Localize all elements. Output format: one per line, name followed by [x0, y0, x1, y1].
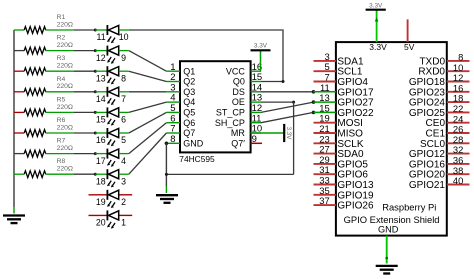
wire: R1 right lead	[46, 29, 75, 31]
wire: bus to R2	[14, 50, 24, 52]
U1 pin 7 stub	[166, 132, 180, 134]
wire: ground bus vertical	[13, 30, 15, 207]
wire: LED4 anode lead	[119, 91, 129, 93]
wire: LED3 cathode lead	[95, 70, 107, 72]
LED D5 (bar pins 15/6)	[107, 107, 119, 125]
resistor R6 220Ohm	[24, 130, 46, 137]
junction DS/GPIO17	[312, 90, 316, 94]
wire: R3 to LED3	[74, 70, 95, 72]
U1 pin 5 stub	[166, 111, 180, 113]
U1 pin 8 stub	[166, 142, 180, 144]
LED D3 (bar pins 13/8)	[107, 66, 119, 84]
svg-text:5V: 5V	[404, 42, 415, 52]
svg-text:Q2: Q2	[183, 77, 195, 87]
svg-text:DS: DS	[232, 87, 245, 97]
svg-text:Q6: Q6	[183, 118, 195, 128]
wire: LED6 to U1 pin 5	[129, 112, 167, 133]
U2 pin 38 GPIO20 stub	[447, 173, 470, 175]
wire: bus to R3	[14, 70, 24, 72]
svg-text:VCC: VCC	[226, 66, 246, 76]
wire: R5 right lead	[46, 111, 75, 113]
svg-text:R5: R5	[57, 96, 66, 103]
U1 pin 14 stub	[251, 91, 261, 93]
svg-text:7: 7	[121, 94, 126, 104]
svg-text:17: 17	[96, 156, 106, 166]
wire: OE net to GND	[166, 173, 293, 175]
svg-text:13: 13	[96, 73, 106, 83]
wire: OE to ground net horizontal	[261, 101, 294, 103]
U1 pin 12 stub	[251, 111, 261, 113]
svg-text:220Ω: 220Ω	[57, 166, 73, 173]
U1 pin 1 stub	[166, 70, 180, 72]
svg-text:220Ω: 220Ω	[57, 83, 73, 90]
wire: OE net vertical	[293, 102, 295, 174]
U2 pin 19 MOSI stub	[314, 122, 336, 124]
svg-text:3: 3	[121, 176, 126, 186]
wire: bus to R8	[14, 173, 24, 175]
svg-text:11: 11	[97, 32, 106, 42]
U2 pin 11 GPIO17 stub (connected)	[314, 91, 336, 93]
wire: LED1 to U1 Q0 (pin15)	[129, 30, 283, 82]
wire: R6 to LED6	[74, 132, 95, 134]
resistor R2 220Ohm	[24, 47, 46, 54]
U2 pin 23 SCLK stub	[314, 142, 336, 144]
svg-text:1: 1	[121, 218, 126, 228]
power 3.3V for U1 MR	[251, 124, 293, 142]
U1 pin 11 stub	[251, 122, 261, 124]
wire: LED4 to U1 pin 3	[129, 91, 167, 93]
wire: LED7 anode lead	[119, 153, 129, 155]
U2 pin 10 RXD0 stub	[447, 70, 470, 72]
wire: bus to R1	[14, 29, 24, 31]
svg-text:Q7: Q7	[183, 128, 195, 138]
wire: LED1 anode lead	[119, 29, 129, 31]
svg-text:ST_CP: ST_CP	[216, 108, 245, 118]
U2 pin 37 GPIO26 stub	[314, 204, 336, 206]
svg-text:Q4: Q4	[183, 97, 195, 107]
wire: R5 to LED5	[74, 111, 95, 113]
wire: LED2 anode lead	[119, 50, 129, 52]
junction U1 pin8	[165, 142, 169, 146]
U2 pin 32 GPIO12 stub	[447, 153, 470, 155]
svg-text:R7: R7	[57, 138, 66, 145]
svg-text:Q0: Q0	[233, 77, 245, 87]
module U2 Raspberry Pi GPIO Extension Shield body	[336, 42, 447, 236]
svg-text:8: 8	[170, 134, 175, 145]
svg-text:12: 12	[96, 53, 106, 63]
svg-text:220Ω: 220Ω	[57, 21, 73, 28]
svg-text:R1: R1	[57, 14, 66, 21]
wire: LED6 anode lead	[119, 132, 129, 134]
wire: bus to R4	[14, 91, 24, 93]
wire: LED3 to U1 pin 2	[129, 71, 167, 81]
svg-text:18: 18	[96, 176, 106, 186]
wire: LED8 anode lead	[119, 173, 129, 175]
svg-text:220Ω: 220Ω	[57, 124, 73, 131]
wire: shield GND down	[386, 236, 388, 264]
svg-text:Raspberry Pi: Raspberry Pi	[382, 201, 436, 212]
svg-text:GPIO21: GPIO21	[409, 180, 446, 191]
wire: DS to GPIO17	[261, 91, 314, 93]
wire: R2 to LED2	[74, 50, 95, 52]
svg-text:8: 8	[121, 73, 126, 83]
wire: LED2 cathode lead	[95, 50, 107, 52]
svg-text:4: 4	[121, 156, 126, 166]
svg-text:20: 20	[96, 218, 106, 228]
LED D2 (bar pins 12/9)	[107, 46, 119, 64]
wire: LED8 cathode lead	[95, 173, 107, 175]
U1 pin 4 stub	[166, 101, 180, 103]
junction R2/LED2	[94, 49, 97, 52]
svg-text:R4: R4	[57, 76, 66, 83]
resistor R3 220Ohm	[24, 68, 46, 75]
ground: shield ground symbol	[376, 266, 398, 274]
wire: LED5 anode lead	[119, 111, 129, 113]
wire: R4 to LED4	[74, 91, 95, 93]
resistor R1 220Ohm	[24, 27, 46, 34]
wire: R8 right lead	[46, 173, 75, 175]
wire: R6 right lead	[46, 132, 75, 134]
svg-text:Q7′: Q7′	[231, 138, 245, 148]
U2 pin 18 GPIO24 stub	[447, 101, 470, 103]
resistor R4 220Ohm	[24, 88, 46, 95]
U2 pin 8 TXD0 stub	[447, 60, 470, 62]
U2 pin 16 GPIO23 stub	[447, 91, 470, 93]
U2 pin 33 GPIO13 stub	[314, 184, 336, 186]
wire: R7 to LED7	[74, 153, 95, 155]
U1 pin 9 Q7' stub (unconnected)	[251, 142, 262, 144]
svg-text:220Ω: 220Ω	[57, 145, 73, 152]
wire: R1 to LED1	[74, 29, 95, 31]
junction R6/LED6	[94, 132, 97, 135]
U2 pin 3 SDA1 stub	[314, 60, 336, 62]
svg-text:GND: GND	[183, 138, 204, 148]
U1 pin 15 stub	[251, 81, 261, 83]
resistor R8 220Ohm	[24, 171, 46, 178]
ground: U1 ground symbol	[156, 195, 178, 203]
svg-text:9: 9	[121, 53, 126, 63]
U2 pin 40 GPIO21 stub	[447, 184, 470, 186]
wire: LED9 cathode leg (unconnected)	[89, 194, 108, 196]
wire: LED8 to U1 pin 7	[129, 133, 167, 174]
svg-text:3.3V: 3.3V	[254, 43, 268, 50]
wire: LED2 to U1 pin 1	[129, 51, 167, 72]
wire: bus to R7	[14, 153, 24, 155]
junction R1/LED1	[94, 29, 97, 32]
wire: LED9 anode leg (unconnected)	[119, 194, 133, 196]
svg-text:SH_CP: SH_CP	[215, 118, 245, 128]
svg-text:6: 6	[121, 115, 126, 125]
power 3.3V for U1 VCC	[251, 43, 271, 72]
U1 pin 3 stub	[166, 91, 180, 93]
svg-text:10: 10	[119, 32, 129, 42]
svg-text:MR: MR	[231, 128, 245, 138]
svg-text:GPIO26: GPIO26	[337, 201, 374, 212]
svg-text:Q3: Q3	[183, 87, 195, 97]
wire: LED1 cathode lead	[95, 29, 107, 31]
junction OE corner	[292, 101, 295, 104]
U2 pin 36 GPIO16 stub	[447, 163, 470, 165]
svg-text:40: 40	[453, 175, 463, 186]
junction R4/LED4	[94, 90, 97, 93]
wire: LED4 cathode lead	[95, 91, 107, 93]
U2 pin 22 GPIO25 stub	[447, 111, 470, 113]
resistor R5 220Ohm	[24, 109, 46, 116]
U2 pin 15 GPIO22 stub (connected)	[314, 111, 336, 113]
svg-text:3.3V: 3.3V	[285, 127, 292, 141]
U2 pin 29 GPIO5 stub	[314, 163, 336, 165]
svg-text:15: 15	[96, 115, 106, 125]
svg-text:74HC595: 74HC595	[179, 154, 215, 164]
svg-text:GND: GND	[378, 225, 399, 235]
wire: LED10 anode leg (unconnected)	[119, 214, 133, 216]
LED D6 (bar pins 16/5)	[107, 128, 119, 146]
U2 pin 7 GPIO4 stub	[314, 81, 336, 83]
U1 pin 2 stub	[166, 81, 180, 83]
wire: R7 right lead	[46, 153, 75, 155]
U2 pin 27 SDA0 stub	[314, 153, 336, 155]
wire: ground bus green tail	[13, 207, 15, 214]
power 3.3V above shield	[366, 3, 386, 43]
wire: R4 right lead	[46, 91, 75, 93]
svg-text:GPIO Extension Shield: GPIO Extension Shield	[344, 214, 440, 225]
LED D10 (bar pins 20/1)	[107, 210, 119, 228]
junction R3/LED3	[94, 70, 97, 73]
svg-text:OE: OE	[232, 97, 245, 107]
svg-text:19: 19	[96, 197, 106, 207]
svg-text:R2: R2	[57, 35, 66, 42]
U2 pin 21 MISO stub	[314, 132, 336, 134]
resistor R7 220Ohm	[24, 150, 46, 157]
junction LED1/Q0 corner	[282, 80, 285, 83]
U1 pin 6 stub	[166, 122, 180, 124]
wire: U1 GND down	[165, 143, 167, 186]
junction ST_CP/GPIO27	[312, 100, 316, 104]
wire: bus to R5	[14, 111, 24, 113]
svg-text:16: 16	[96, 135, 106, 145]
U1 pin 13 stub	[251, 101, 261, 103]
wire: LED7 to U1 pin 6	[129, 123, 167, 154]
U2 pin 28 SCL0 stub	[447, 142, 470, 144]
LED D1 (bar pins 11/10)	[107, 25, 119, 43]
svg-text:37: 37	[319, 195, 329, 206]
U2 pin 26 CE1 stub	[447, 132, 470, 134]
U2 pin 5 SCL1 stub	[314, 70, 336, 72]
ground: left bus ground symbol	[3, 216, 25, 224]
U2 pin 31 GPIO6 stub	[314, 173, 336, 175]
wire: R3 right lead	[46, 70, 75, 72]
U2 pin 24 CE0 stub	[447, 122, 470, 124]
svg-text:Q1: Q1	[183, 66, 195, 76]
LED D9 (bar pins 19/2)	[107, 190, 119, 208]
wire: LED6 cathode lead	[95, 132, 107, 134]
wire: 5V stub (unconnected)	[407, 19, 409, 42]
wire: SH_CP to GPIO22	[261, 112, 314, 122]
svg-text:3.3V: 3.3V	[369, 3, 383, 10]
svg-text:220Ω: 220Ω	[57, 104, 73, 111]
LED D8 (bar pins 18/3)	[107, 169, 119, 187]
LED D4 (bar pins 14/7)	[107, 87, 119, 105]
wire: bus to R6	[14, 132, 24, 134]
junction shield gnd	[385, 257, 388, 260]
svg-text:2: 2	[121, 197, 126, 207]
wire: U1 GND green tail	[165, 186, 167, 193]
svg-text:14: 14	[96, 94, 106, 104]
junction R5/LED5	[94, 111, 97, 114]
wire: LED10 cathode leg (unconnected)	[89, 214, 108, 216]
junction R7/LED7	[94, 152, 97, 155]
svg-text:R8: R8	[57, 158, 66, 165]
U1 pin 10 stub	[251, 132, 261, 134]
junction R8/LED8	[94, 173, 97, 176]
svg-text:5: 5	[121, 135, 126, 145]
junction SH_CP/GPIO22	[312, 111, 316, 115]
svg-text:R3: R3	[57, 55, 66, 62]
wire: LED7 cathode lead	[95, 153, 107, 155]
wire: R2 right lead	[46, 50, 75, 52]
wire: LED5 to U1 pin 4	[129, 102, 167, 112]
U2 pin 13 GPIO27 stub (connected)	[314, 101, 336, 103]
svg-text:220Ω: 220Ω	[57, 42, 73, 49]
svg-text:3.3V: 3.3V	[369, 42, 387, 52]
junction OE/GND tee	[165, 173, 168, 176]
wire: LED5 cathode lead	[95, 111, 107, 113]
svg-text:R6: R6	[57, 117, 66, 124]
svg-text:220Ω: 220Ω	[57, 63, 73, 70]
U2 pin 12 GPIO18 stub	[447, 81, 470, 83]
svg-text:9: 9	[252, 134, 257, 145]
IC U1 74HC595	[180, 61, 251, 152]
wire: LED3 anode lead	[119, 70, 129, 72]
U2 pin 35 GPIO19 stub	[314, 194, 336, 196]
wire: R8 to LED8	[74, 173, 95, 175]
LED D7 (bar pins 17/4)	[107, 149, 119, 167]
U1 pin 16 stub	[251, 70, 261, 72]
svg-text:Q5: Q5	[183, 108, 195, 118]
wire: ST_CP to GPIO27	[261, 102, 314, 112]
